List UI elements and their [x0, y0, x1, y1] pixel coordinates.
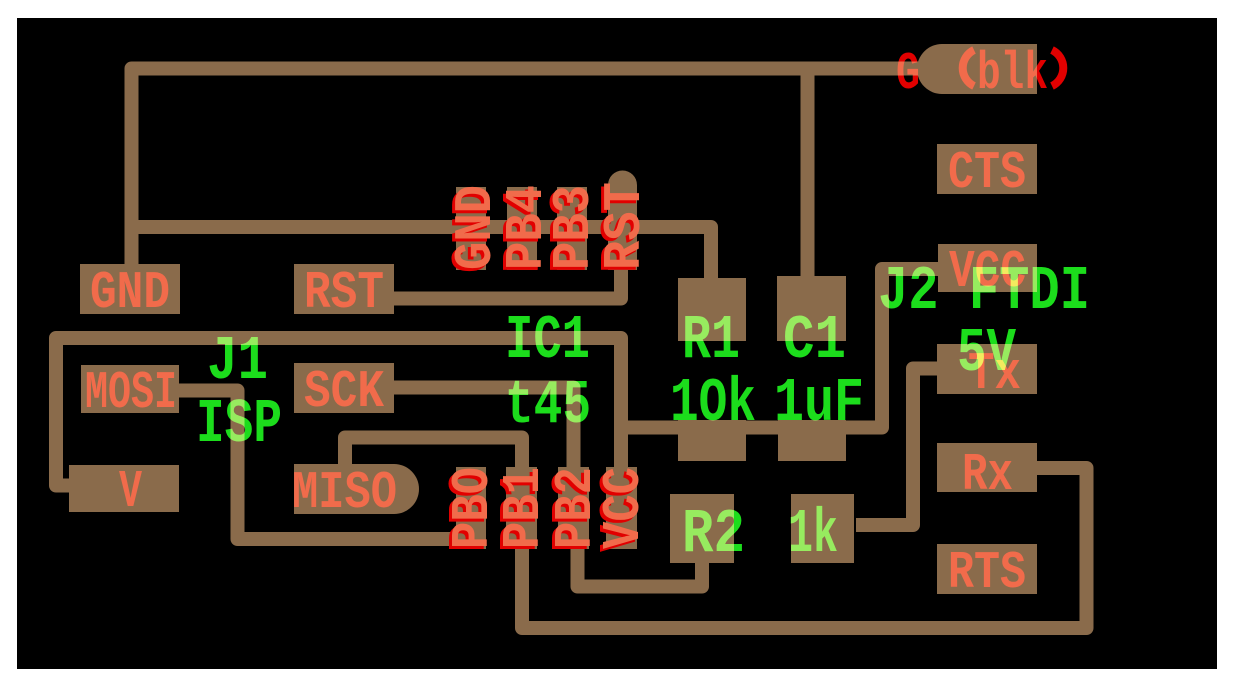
capacitor C1 pad2	[778, 420, 846, 461]
pad J1 MOSI	[81, 365, 179, 413]
resistor R2 pad1	[670, 494, 734, 563]
resistor R2 pad2 (1k)	[791, 494, 854, 563]
resistor R1 pad2	[678, 420, 746, 461]
wire MISO pad via PB1 pin along bottom to Rx pad	[345, 438, 1087, 629]
pin IC1 PB1	[506, 467, 537, 549]
wire V pad up across to IC1 VCC pin (5V net)	[56, 338, 621, 486]
pad J1 SCK	[294, 363, 394, 413]
pad J2 VCC	[938, 244, 1037, 292]
svg-text:blk: blk	[977, 44, 1048, 104]
svg-text:1Ok: 1Ok	[670, 368, 756, 439]
wire R1/C1 bottom pads across to J2 VCC pad	[617, 269, 942, 428]
wire SCK pad to IC1 PB2 pin	[392, 388, 574, 472]
svg-text:VCC: VCC	[594, 467, 654, 549]
svg-text:t45: t45	[505, 370, 591, 441]
svg-text:IC1: IC1	[505, 305, 590, 376]
pin IC1 PB2	[558, 467, 589, 549]
pad J2 CTS	[937, 144, 1037, 194]
pin IC1 GND	[456, 187, 486, 270]
pad J2 Rx	[937, 443, 1037, 492]
resistor R1 pad1	[678, 278, 746, 341]
wire GND: pad GND up and across top to G(blk) pad	[132, 69, 931, 265]
svg-text:ISP: ISP	[196, 389, 282, 460]
svg-text:1uF: 1uF	[774, 368, 864, 439]
pad J2 Tx	[937, 344, 1037, 394]
wire R2 pad1 down to IC1 PB2 pin	[578, 547, 703, 587]
pin IC1 VCC	[606, 467, 637, 549]
wire C1 pad1 up to top GND trace	[801, 70, 815, 280]
wire Tx pad to 1k pad (R2 pad2)	[856, 369, 941, 526]
svg-text:Rx: Rx	[962, 445, 1013, 505]
wire GND mid horizontal behind IC1 top pins to R1 pad1	[132, 227, 712, 282]
pad J1 GND	[80, 264, 180, 314]
wire MOSI pad to IC1 PB0 pin	[177, 391, 480, 540]
capacitor C1 pad1	[777, 276, 846, 341]
pin IC1 PB4	[507, 187, 537, 270]
pad J1 V	[69, 465, 179, 512]
svg-text:SCK: SCK	[304, 362, 384, 422]
pad J1 MISO (capsule right)	[294, 464, 419, 514]
svg-text:RST: RST	[304, 263, 384, 323]
pad J2 G (capsule left)	[917, 44, 1037, 94]
svg-text:CTS: CTS	[948, 143, 1026, 203]
svg-text:R2: R2	[682, 499, 745, 570]
svg-text:GND: GND	[90, 263, 170, 323]
svg-text:RST: RST	[595, 182, 655, 270]
svg-text:J2 FTDI: J2 FTDI	[878, 256, 1090, 327]
svg-text:MISO: MISO	[292, 463, 397, 523]
svg-text:V: V	[119, 462, 142, 522]
svg-text:RTS: RTS	[948, 543, 1026, 603]
svg-text:MOSI: MOSI	[85, 363, 177, 423]
pad J2 RTS	[937, 544, 1037, 594]
svg-text:5V: 5V	[957, 318, 1017, 389]
pad J1 RST	[294, 264, 394, 314]
svg-text:G: G	[896, 44, 920, 104]
svg-text:R1: R1	[682, 305, 740, 376]
svg-text:J1: J1	[207, 326, 268, 397]
pin IC1 PB3	[557, 187, 587, 270]
pin IC1 PB0	[456, 467, 486, 549]
pin IC1 RST (capsule top)	[608, 171, 637, 271]
svg-text:1k: 1k	[788, 499, 838, 570]
svg-text:C1: C1	[783, 305, 846, 376]
wire RST pad to IC1 RST pin	[394, 266, 621, 299]
